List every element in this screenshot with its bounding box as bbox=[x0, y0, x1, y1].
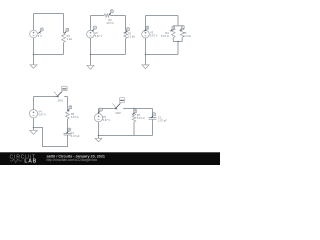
svg-text:SW2: SW2 bbox=[115, 112, 121, 115]
svg-text:5 V: 5 V bbox=[38, 34, 42, 38]
svg-text:1 kΩ: 1 kΩ bbox=[67, 37, 72, 41]
svg-text:LAB: LAB bbox=[24, 159, 37, 165]
svg-text:2.2 kΩ: 2.2 kΩ bbox=[128, 35, 136, 39]
svg-text:5.67 V: 5.67 V bbox=[103, 118, 111, 122]
svg-text:1.07 µF: 1.07 µF bbox=[71, 134, 80, 138]
svg-text:5.67 V: 5.67 V bbox=[38, 113, 46, 117]
svg-text:2.2 kΩ: 2.2 kΩ bbox=[183, 34, 191, 38]
svg-text:SW1: SW1 bbox=[58, 99, 64, 102]
svg-text:247 Ω: 247 Ω bbox=[107, 21, 114, 25]
svg-text:http://circuitlab.com/c/224kag: http://circuitlab.com/c/224kagvtr/law bbox=[47, 158, 98, 162]
svg-text:5.67 Ω: 5.67 Ω bbox=[137, 116, 145, 120]
svg-text:5.67 V: 5.67 V bbox=[150, 34, 158, 38]
svg-text:1.07 µF: 1.07 µF bbox=[158, 119, 167, 123]
svg-text:5.67 Ω: 5.67 Ω bbox=[161, 34, 169, 38]
svg-text:5.67 V: 5.67 V bbox=[95, 34, 103, 38]
svg-text:5.67 Ω: 5.67 Ω bbox=[71, 115, 79, 119]
